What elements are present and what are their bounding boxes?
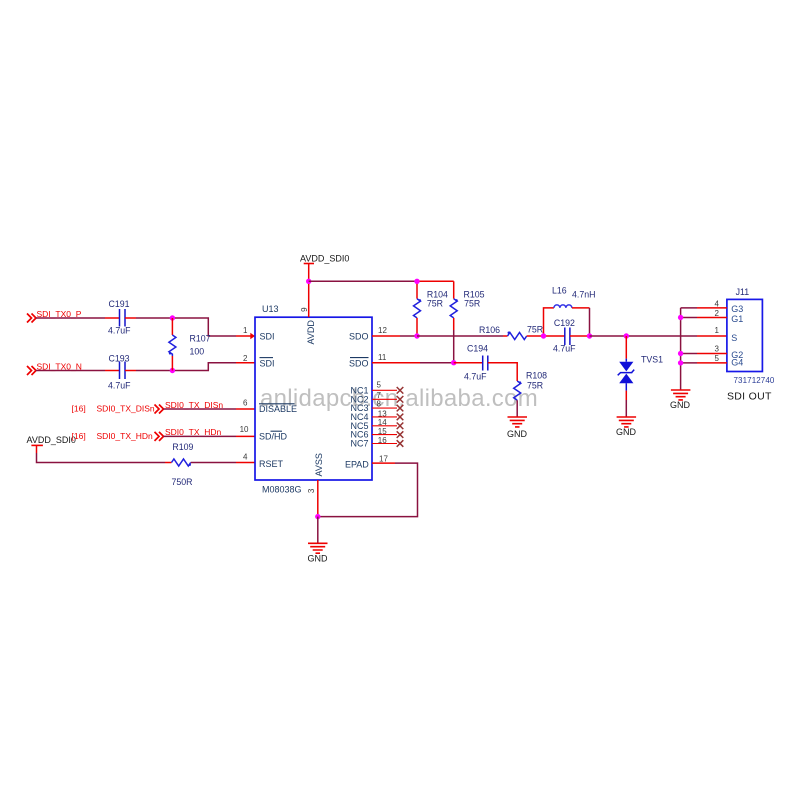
svg-text:RSET: RSET — [259, 459, 284, 469]
TVS1 diode — [624, 333, 629, 338]
svg-text:1: 1 — [715, 326, 720, 335]
svg-text:C194: C194 — [467, 344, 488, 354]
svg-text:10: 10 — [240, 425, 249, 434]
capacitor C193 — [120, 362, 126, 380]
svg-text:9: 9 — [300, 307, 309, 312]
svg-text:5: 5 — [715, 354, 720, 363]
svg-text:3: 3 — [715, 345, 720, 354]
wire cap to R107 node — [125, 317, 136, 319]
wire P line to cap — [36, 317, 105, 319]
svg-text:17: 17 — [379, 454, 388, 463]
svg-text:75R: 75R — [427, 299, 443, 309]
svg-text:4.7uF: 4.7uF — [553, 344, 576, 354]
svg-text:EPAD: EPAD — [345, 460, 369, 470]
svg-text:SDI: SDI — [260, 331, 275, 341]
svg-text:SDI OUT: SDI OUT — [727, 391, 772, 403]
wire HDn to pin10 — [164, 435, 237, 437]
wire EPAD pin17 — [372, 462, 395, 464]
wire SDO-bar pin11 — [372, 362, 420, 364]
wire N line to cap — [36, 370, 105, 372]
wire AVDD rail — [309, 280, 417, 282]
svg-text:1: 1 — [243, 326, 248, 335]
svg-text:4.7uF: 4.7uF — [108, 381, 131, 391]
IC U13 body — [255, 317, 372, 480]
capacitor C192 — [544, 335, 565, 337]
svg-text:SDI: SDI — [260, 358, 275, 368]
svg-text:G4: G4 — [731, 357, 743, 367]
svg-text:731712740: 731712740 — [734, 376, 775, 385]
svg-text:7: 7 — [377, 391, 382, 400]
port chevron SDI_TX0_N — [27, 366, 36, 375]
svg-text:NC7: NC7 — [350, 439, 368, 449]
junction node AVDD rail — [306, 279, 311, 284]
svg-text:100: 100 — [190, 347, 205, 357]
svg-text:R108: R108 — [526, 371, 547, 381]
svg-text:75R: 75R — [464, 299, 480, 309]
svg-text:8: 8 — [377, 400, 382, 409]
wire SDO out to J11 — [590, 335, 698, 337]
wire J11 pin5 — [681, 362, 697, 364]
wire J11 pin2 — [681, 317, 697, 319]
svg-text:3: 3 — [307, 488, 316, 493]
svg-text:4.7nH: 4.7nH — [572, 290, 595, 300]
svg-text:SDI0_TX_HDn: SDI0_TX_HDn — [97, 431, 153, 441]
NC pins — [350, 385, 368, 448]
svg-text:750R: 750R — [172, 477, 193, 487]
J11 pin numbers — [715, 300, 720, 364]
svg-text:GND: GND — [670, 400, 691, 410]
wire pin9 drop — [308, 281, 310, 317]
svg-text:AVDD: AVDD — [306, 320, 316, 345]
wire node to pin2 — [172, 363, 236, 371]
svg-text:L16: L16 — [552, 286, 567, 296]
wire cap to R107 node N — [125, 370, 136, 372]
svg-text:SDO: SDO — [349, 358, 369, 368]
resistor R104 — [416, 281, 418, 298]
resistor R109 — [165, 462, 172, 464]
connector J11 body — [727, 299, 763, 371]
wire J11 pin4 — [681, 307, 697, 309]
svg-text:C193: C193 — [109, 354, 130, 364]
NC pin numbers — [377, 381, 388, 445]
wire SDO pin12 — [372, 335, 400, 337]
J11 pin names — [731, 304, 743, 367]
svg-text:[16]: [16] — [72, 431, 86, 441]
svg-text:C192: C192 — [554, 318, 575, 328]
junction node N — [170, 368, 175, 373]
svg-text:4.7uF: 4.7uF — [108, 326, 131, 336]
ground under R108 — [508, 417, 528, 427]
resistor R108 — [514, 381, 521, 400]
svg-text:75R: 75R — [527, 325, 543, 335]
inductor L16 loop — [544, 308, 554, 336]
svg-text:DISABLE: DISABLE — [259, 404, 297, 414]
svg-text:75R: 75R — [527, 381, 543, 391]
svg-text:AVDD_SDI0: AVDD_SDI0 — [300, 254, 349, 264]
svg-text:M08038G: M08038G — [262, 485, 302, 495]
svg-text:AVSS: AVSS — [314, 453, 324, 476]
svg-text:R107: R107 — [190, 334, 211, 344]
svg-text:GND: GND — [308, 554, 329, 564]
svg-text:AVDD_SDI0: AVDD_SDI0 — [27, 435, 76, 445]
ground under J11 bus — [671, 390, 691, 400]
svg-text:5: 5 — [377, 381, 382, 390]
svg-text:J11: J11 — [736, 287, 750, 297]
resistor R105 — [453, 281, 455, 298]
pin1 arrowhead — [250, 333, 255, 339]
wire node to pin1 — [172, 318, 236, 336]
wire DISn to pin6 — [164, 408, 237, 410]
wire AVSS pin3 — [317, 480, 319, 517]
capacitor C194 — [483, 356, 488, 371]
svg-text:R109: R109 — [172, 442, 193, 452]
svg-text:U13: U13 — [262, 304, 279, 314]
svg-text:G3: G3 — [731, 304, 743, 314]
svg-text:SD/HD: SD/HD — [259, 431, 288, 441]
NC pin stubs with X — [372, 390, 397, 443]
svg-text:SDI0_TX_DISn: SDI0_TX_DISn — [97, 404, 155, 414]
resistor R106 — [503, 335, 508, 337]
svg-text:2: 2 — [243, 354, 248, 363]
resistor R107 — [171, 318, 173, 335]
svg-text:SDO: SDO — [349, 331, 369, 341]
port chevron SDI_TX0_P — [27, 314, 36, 323]
svg-text:G1: G1 — [731, 314, 743, 324]
svg-text:12: 12 — [378, 326, 387, 335]
svg-text:[16]: [16] — [72, 404, 86, 414]
svg-text:TVS1: TVS1 — [641, 355, 663, 365]
ground under TVS1 — [617, 417, 637, 427]
svg-text:R106: R106 — [479, 325, 500, 335]
capacitor C191 — [120, 309, 126, 327]
svg-text:4: 4 — [243, 453, 248, 462]
J11 ground bus — [680, 308, 682, 390]
svg-text:4.7uF: 4.7uF — [464, 372, 487, 382]
svg-text:C191: C191 — [109, 299, 130, 309]
svg-text:6: 6 — [243, 399, 248, 408]
svg-text:11: 11 — [378, 353, 387, 362]
wire J11 pin3 — [681, 353, 697, 355]
svg-text:GND: GND — [616, 427, 637, 437]
svg-text:GND: GND — [507, 429, 528, 439]
svg-text:S: S — [731, 333, 737, 343]
ground under IC — [308, 543, 328, 553]
junction node P — [170, 315, 175, 320]
